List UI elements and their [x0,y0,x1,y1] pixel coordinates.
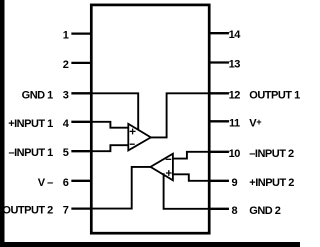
IC package outline U1 [91,5,209,233]
pin 8 lead [209,208,228,210]
pin 5 lead [73,150,92,152]
svg-text:8: 8 [231,205,237,217]
pin 4 lead [73,121,92,123]
svg-text:12: 12 [229,89,241,101]
pin 7 lead [73,207,92,209]
pin 3 lead [73,92,92,94]
svg-text:OUTPUT 2: OUTPUT 2 [2,205,53,217]
svg-text:13: 13 [229,59,241,71]
A1 minus input symbol [130,143,134,145]
svg-text:OUTPUT 1: OUTPUT 1 [249,89,300,101]
wire GND1 from pin 3 to op-amp A1 top [91,93,138,129]
wire +INPUT1 from pin 4 to A1 noninverting input [91,122,128,128]
svg-text:14: 14 [229,29,242,41]
svg-text:V –: V – [38,177,53,189]
svg-text:10: 10 [229,148,241,160]
svg-text:–INPUT 1: –INPUT 1 [9,147,54,159]
svg-text:+: + [256,117,261,127]
pin 1 lead [73,32,92,34]
pin 11 lead [209,120,228,122]
svg-text:GND 1: GND 1 [22,89,54,101]
wire +INPUT2 from pin 9 to A2 noninverting input [173,174,209,181]
svg-text:–INPUT 2: –INPUT 2 [249,148,294,160]
svg-text:9: 9 [231,177,237,189]
svg-text:GND 2: GND 2 [249,205,280,217]
wire GND2 from A2 bottom to pin 8 [164,174,210,209]
A2 plus input symbol [167,171,171,175]
page edge bar left [0,0,5,247]
pin 9 lead [209,180,228,182]
svg-text:7: 7 [63,205,69,217]
svg-text:1: 1 [63,30,69,42]
A1 plus input symbol [130,129,135,134]
pin 2 lead [73,62,92,64]
pin 14 lead [209,32,228,34]
pin 6 lead [73,180,92,182]
svg-text:11: 11 [229,117,240,129]
svg-text:+INPUT 2: +INPUT 2 [249,177,294,189]
op-amp A2 [151,154,173,181]
pin 12 lead [209,92,228,94]
wire -INPUT2 from pin 10 to A2 inverting input [173,152,209,159]
pin 13 lead [209,61,228,63]
svg-text:2: 2 [63,59,69,71]
svg-text:3: 3 [63,89,69,101]
svg-text:6: 6 [63,177,69,189]
wire OUTPUT1 from A1 output to pin 12 [151,93,209,137]
pin 10 lead [209,151,228,153]
wire OUTPUT2 from A2 output to pin 7 [91,167,150,209]
svg-text:5: 5 [63,147,69,159]
wire -INPUT1 from pin 5 to A1 inverting input [91,145,128,151]
svg-text:+INPUT 1: +INPUT 1 [8,118,53,130]
op-amp A1 [128,124,151,151]
page edge bar bottom [0,242,300,247]
A2 minus input symbol [166,158,170,160]
